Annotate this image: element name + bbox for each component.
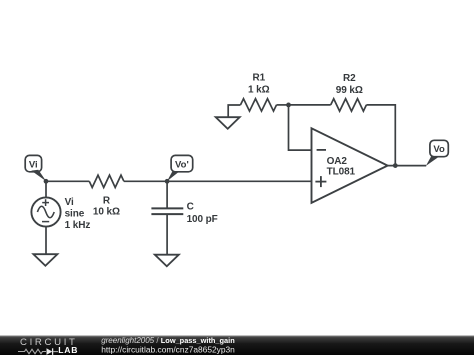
svg-text:Vo: Vo <box>433 144 445 155</box>
op-amp OA2 TL081 <box>312 128 388 203</box>
svg-text:C: C <box>187 201 194 212</box>
wire R to Vo' node <box>124 180 167 182</box>
svg-text:1 kΩ: 1 kΩ <box>248 85 270 96</box>
resistor R <box>89 175 124 217</box>
junction dot at Vo' node <box>165 179 170 184</box>
svg-text:R: R <box>103 195 111 206</box>
ground under capacitor <box>155 255 179 267</box>
svg-text:99 kΩ: 99 kΩ <box>336 85 363 96</box>
svg-text:TL081: TL081 <box>327 166 356 177</box>
resistor R2 <box>331 73 367 111</box>
node Vi flag <box>25 155 46 181</box>
junction dot at Vi node <box>44 179 49 184</box>
wire R1 to feedback node <box>277 104 289 106</box>
capacitor C <box>151 201 217 225</box>
CircuitLab logo resistor-diode squiggle <box>18 348 58 355</box>
svg-text:LAB: LAB <box>58 345 78 355</box>
wire Vo' node down to capacitor <box>166 181 168 208</box>
voltage source Vi <box>31 197 90 231</box>
resistor R1 <box>241 73 277 112</box>
junction dot feedback node <box>286 103 291 108</box>
wire capacitor to ground <box>166 214 168 255</box>
node Vo' flag <box>167 155 193 181</box>
node Vo flag <box>426 140 448 166</box>
svg-text:100 pF: 100 pF <box>187 214 218 225</box>
svg-text:R2: R2 <box>343 73 356 84</box>
svg-text:Vo': Vo' <box>175 159 189 170</box>
ground at R1 <box>216 117 240 129</box>
wire Vi node down to source <box>45 181 47 197</box>
wire op-amp output to Vo <box>388 165 427 167</box>
wire ground up to R1 <box>228 105 240 117</box>
svg-text:Vi: Vi <box>29 159 38 170</box>
wire R2 to output vertical <box>366 105 395 166</box>
svg-text:1 kHz: 1 kHz <box>65 220 91 231</box>
footer bar <box>0 336 474 355</box>
ground under source <box>33 254 57 266</box>
junction dot output node <box>393 163 398 168</box>
svg-text:http://circuitlab.com/cnz7a865: http://circuitlab.com/cnz7a8652yp3n <box>101 345 235 355</box>
svg-text:R1: R1 <box>253 73 266 84</box>
wire source to ground <box>45 227 47 255</box>
wire Vi node to resistor R <box>46 180 89 182</box>
svg-text:sine: sine <box>65 208 85 219</box>
wire feedback node to R2 <box>289 104 331 106</box>
wire feedback node down to op-amp - input <box>289 105 312 150</box>
wire Vo' node to op-amp + input <box>167 180 311 182</box>
svg-text:10 kΩ: 10 kΩ <box>93 206 120 217</box>
svg-text:Vi: Vi <box>65 197 74 208</box>
